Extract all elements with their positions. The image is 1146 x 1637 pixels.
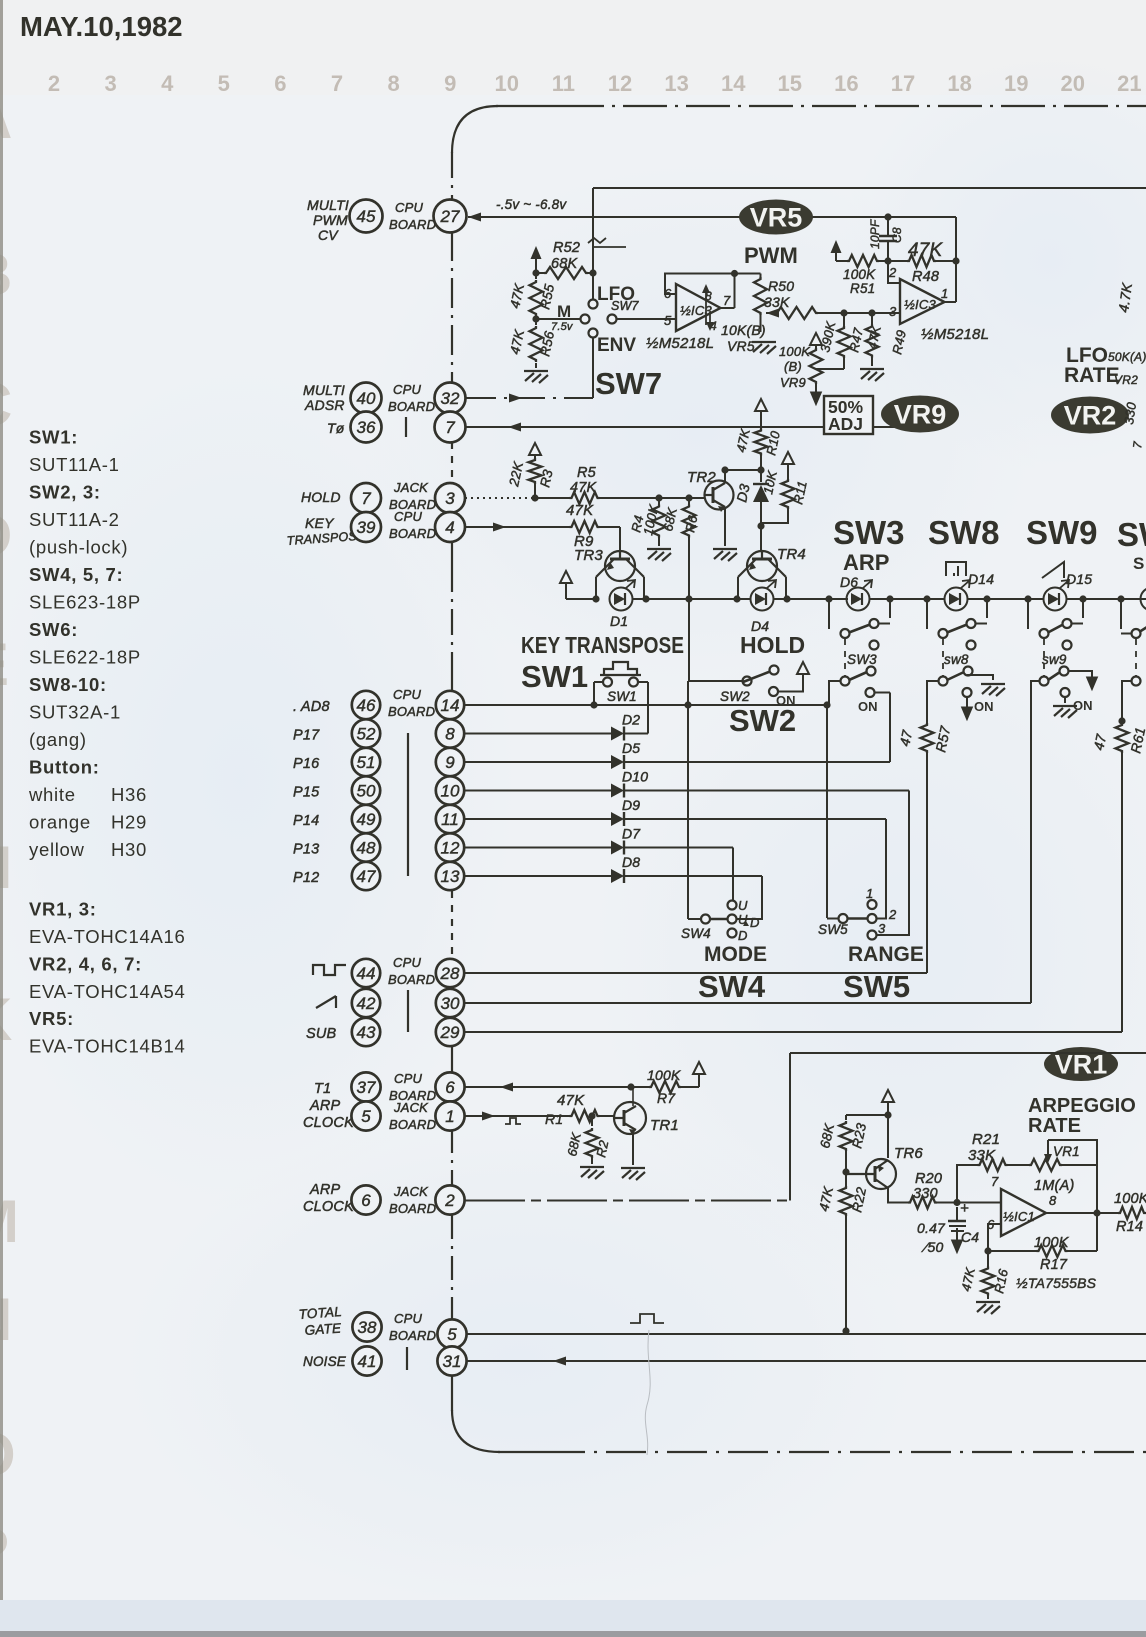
op-amp IC3a feedback loop wire xyxy=(665,274,761,295)
diode D8 xyxy=(611,869,624,883)
svg-text:SW4: SW4 xyxy=(681,926,711,941)
svg-text:SW3: SW3 xyxy=(847,652,877,667)
svg-text:Button:: Button: xyxy=(29,757,100,778)
diode D7 xyxy=(611,841,624,855)
svg-text:43: 43 xyxy=(357,1023,376,1042)
svg-text:RANGE: RANGE xyxy=(848,943,924,966)
svg-text:BOARD: BOARD xyxy=(388,399,435,414)
resistor R50 33K xyxy=(775,307,818,319)
connector pin 11 board xyxy=(436,805,464,833)
LED D6 xyxy=(847,580,873,611)
wire D5 to destination xyxy=(624,761,890,763)
svg-text:SUT11A-2: SUT11A-2 xyxy=(29,509,120,530)
wire R23 R22 chain xyxy=(845,1151,847,1186)
wire pin7 to 50% ADJ area xyxy=(466,426,902,428)
wire pin3 row xyxy=(465,497,533,499)
svg-text:7: 7 xyxy=(361,489,371,508)
svg-text:42: 42 xyxy=(357,994,376,1013)
svg-text:41: 41 xyxy=(358,1352,377,1371)
icon pulse total gate xyxy=(630,1314,664,1323)
potentiometer VR2 ellipse label xyxy=(1051,397,1129,434)
svg-text:3: 3 xyxy=(878,921,886,936)
connector pin 12 board xyxy=(436,833,464,861)
svg-text:TR6: TR6 xyxy=(894,1145,923,1162)
wire pin row y=790.5 xyxy=(464,790,611,792)
wire TR1 collector xyxy=(632,1087,634,1106)
resistor R23 68K xyxy=(845,1115,847,1120)
wire pin row y=762 xyxy=(464,761,611,763)
switch SW3 ON contact xyxy=(866,688,875,697)
svg-text:50: 50 xyxy=(357,782,376,801)
svg-text:5: 5 xyxy=(447,1325,457,1344)
svg-text:4: 4 xyxy=(161,71,174,96)
op-amp U=IC3a triangle xyxy=(676,284,721,331)
resistor R5 47K xyxy=(570,492,600,504)
svg-text:100K: 100K xyxy=(1114,1191,1146,1207)
wire output pin1 xyxy=(945,301,957,303)
svg-text:MODE: MODE xyxy=(704,943,767,966)
resistor R56 47K xyxy=(530,326,543,362)
waveform squiggle annotation xyxy=(588,238,606,243)
svg-text:TR3: TR3 xyxy=(574,547,603,564)
svg-text:21: 21 xyxy=(1117,71,1141,96)
svg-text:0.47: 0.47 xyxy=(917,1220,946,1236)
svg-text:D7: D7 xyxy=(622,826,641,842)
svg-text:7.5v: 7.5v xyxy=(551,321,574,333)
ground below R56 xyxy=(524,371,548,383)
svg-text:orangeH29: orangeH29 xyxy=(29,812,147,833)
node pin2 junction xyxy=(884,257,891,264)
op-amp U=IC1 triangle xyxy=(1001,1189,1046,1236)
svg-text:BOARD: BOARD xyxy=(389,217,436,232)
wire pin5 M to op-amp xyxy=(616,318,676,320)
wire R21 feedback rise xyxy=(957,1165,978,1203)
LED D1 xyxy=(610,580,636,611)
scan crease artifact xyxy=(645,1330,650,1455)
svg-text:KEY: KEY xyxy=(305,515,335,531)
resistor R61 47 xyxy=(1116,723,1129,753)
resistor R7 100K xyxy=(631,1086,649,1088)
svg-text:11: 11 xyxy=(552,71,575,96)
svg-text:SW2: SW2 xyxy=(729,703,796,738)
wire SW9 link corner xyxy=(1043,681,1045,685)
svg-text:SUT11A-1: SUT11A-1 xyxy=(29,454,120,475)
resistor R4 100K xyxy=(658,498,660,505)
svg-text:9: 9 xyxy=(445,753,455,772)
svg-text:CPU: CPU xyxy=(394,509,422,524)
wire SW8 bottom pole to R57 xyxy=(927,681,938,700)
switch SW8 ON contact and ground xyxy=(963,688,972,697)
switch SW2 xyxy=(743,677,752,686)
connector pin 28 board xyxy=(436,959,464,987)
node TR2 collector junction xyxy=(721,466,728,473)
wire D8 to MODE UD xyxy=(736,876,762,919)
svg-text:½IC3: ½IC3 xyxy=(680,303,712,318)
wire pin5 total gate row xyxy=(466,1333,1146,1335)
svg-text:52: 52 xyxy=(357,725,376,744)
svg-text:BOARD: BOARD xyxy=(389,1328,436,1343)
wire pin28 row to R57 xyxy=(464,972,927,974)
node junctions R4 R6 xyxy=(655,494,662,501)
svg-text:TR4: TR4 xyxy=(777,546,806,563)
wire TR2 collector xyxy=(724,470,726,483)
svg-text:T1: T1 xyxy=(314,1081,331,1097)
svg-text:47K: 47K xyxy=(570,480,598,496)
svg-text:27: 27 xyxy=(440,207,460,226)
svg-text:P14: P14 xyxy=(293,813,319,829)
svg-text:8: 8 xyxy=(1049,1193,1057,1208)
resistor R2 68K xyxy=(591,1116,593,1126)
left edge scan artifacts xyxy=(0,84,19,1583)
svg-text:330: 330 xyxy=(1121,401,1139,426)
wire rail y=1053 to page edge xyxy=(790,1052,1146,1054)
svg-text:330: 330 xyxy=(913,1186,938,1202)
svg-text:13: 13 xyxy=(441,867,460,886)
svg-text:ON: ON xyxy=(1073,698,1093,713)
board outline bottom-left corner xyxy=(452,1410,500,1452)
svg-text:. AD8: . AD8 xyxy=(293,699,330,715)
svg-text:19: 19 xyxy=(1004,71,1028,96)
switch SW4 MODE xyxy=(701,915,710,924)
ground below R16 xyxy=(976,1302,1000,1314)
paper tint patches xyxy=(0,0,1146,95)
svg-text:BOARD: BOARD xyxy=(389,1201,436,1216)
resistor R9 47K xyxy=(570,521,600,533)
wire pin1 row to R1 xyxy=(465,1115,570,1117)
svg-text:11: 11 xyxy=(441,810,459,829)
svg-text:48: 48 xyxy=(357,839,376,858)
svg-text:8: 8 xyxy=(387,71,399,96)
svg-text:6: 6 xyxy=(664,286,672,301)
connector pin 6 board xyxy=(435,1072,464,1101)
wire pin6 row to R7 xyxy=(465,1086,631,1088)
node R61 top junction xyxy=(1118,717,1125,724)
svg-text:13: 13 xyxy=(664,71,688,96)
svg-text:MULTI: MULTI xyxy=(307,197,349,213)
svg-text:D14: D14 xyxy=(968,571,994,587)
icon square wave SW8 xyxy=(946,562,966,576)
svg-text:SLE622-18P: SLE622-18P xyxy=(29,647,141,668)
diode D3 xyxy=(760,470,762,482)
label group tick 44-43 xyxy=(407,990,409,1032)
svg-text:49: 49 xyxy=(357,810,376,829)
svg-text:SW4, 5, 7:: SW4, 5, 7: xyxy=(29,564,123,585)
svg-text:RATE: RATE xyxy=(1028,1115,1081,1137)
svg-text:D15: D15 xyxy=(1066,571,1092,587)
connector pin 10 board xyxy=(436,776,464,804)
svg-text:GATE: GATE xyxy=(304,1320,342,1338)
svg-text:CPU: CPU xyxy=(395,200,423,215)
resistor R11 10K xyxy=(782,452,794,464)
capacitor C8 10PF xyxy=(884,213,891,220)
wire arp clock up to top rail xyxy=(789,1053,791,1201)
svg-text:R50: R50 xyxy=(768,278,794,294)
supply arrow after R7 xyxy=(693,1062,705,1074)
icon ramp SW9 xyxy=(1042,562,1064,578)
trimmer VR9 100K(B) xyxy=(810,333,822,345)
switch SW8 mechanical link xyxy=(942,639,944,676)
svg-text:VR2: VR2 xyxy=(1114,373,1138,387)
wire D9 to RANGE 2 xyxy=(876,819,886,919)
svg-text:PWM: PWM xyxy=(313,212,348,228)
wire pin6 input xyxy=(988,1224,1001,1251)
board edge line x=452 segments xyxy=(451,152,453,200)
svg-text:50K(A): 50K(A) xyxy=(1108,350,1146,364)
svg-text:SW2, 3:: SW2, 3: xyxy=(29,482,101,503)
svg-text:½M5218L: ½M5218L xyxy=(921,326,989,343)
svg-text:CPU: CPU xyxy=(393,687,421,702)
wire pin row y=819 xyxy=(464,818,611,820)
svg-text:45: 45 xyxy=(357,207,376,226)
svg-text:JACK: JACK xyxy=(393,480,429,495)
svg-text:ENV: ENV xyxy=(597,335,636,356)
potentiometer VR1 1M(A) xyxy=(1008,1164,1030,1166)
ground below R4 xyxy=(647,549,671,561)
diode D9 xyxy=(611,812,624,826)
svg-text:VR2, 4, 6, 7:: VR2, 4, 6, 7: xyxy=(29,953,142,974)
icon pulse small xyxy=(505,1118,521,1124)
svg-text:R48: R48 xyxy=(912,269,939,285)
switch SW8 bottom pole xyxy=(939,677,948,686)
diode D10 xyxy=(611,784,624,798)
svg-text:(B): (B) xyxy=(784,359,802,374)
resistor R1 47K xyxy=(570,1110,600,1122)
svg-text:7: 7 xyxy=(991,1174,999,1189)
svg-text:33K: 33K xyxy=(764,294,790,310)
wire pin30 row to SW9 chain xyxy=(464,1002,1031,1004)
svg-text:EVA-TOHC14B14: EVA-TOHC14B14 xyxy=(29,1036,185,1057)
svg-text:18: 18 xyxy=(947,71,971,96)
svg-text:10K(B): 10K(B) xyxy=(721,322,766,338)
svg-text:40: 40 xyxy=(357,389,376,408)
connector pin 3 jack board xyxy=(435,483,465,513)
wire VR9 wiper to R47 xyxy=(816,368,844,370)
svg-text:2: 2 xyxy=(888,907,897,922)
svg-text:M: M xyxy=(557,302,571,321)
wire pin7 input xyxy=(957,1202,1001,1204)
svg-text:ARP: ARP xyxy=(309,1182,341,1198)
wire SW3 ON to D5 row xyxy=(889,693,891,763)
node D3 R11 junction xyxy=(757,522,764,529)
svg-text:SW4: SW4 xyxy=(698,969,766,1004)
svg-text:15: 15 xyxy=(778,71,802,96)
svg-text:SLE623-18P: SLE623-18P xyxy=(29,592,141,613)
svg-text:10PF: 10PF xyxy=(868,219,882,249)
wire D10 to destination xyxy=(624,790,909,792)
wire pin32 to SW7 ENV xyxy=(466,397,593,399)
wire ENV down to pin 32 row xyxy=(592,337,594,398)
svg-text:U: U xyxy=(738,898,748,913)
svg-text:10: 10 xyxy=(441,782,460,801)
svg-text:SW6:: SW6: xyxy=(29,619,78,640)
svg-text:SW7: SW7 xyxy=(595,366,662,401)
svg-text:D: D xyxy=(750,915,760,930)
svg-text:(push-lock): (push-lock) xyxy=(29,537,128,558)
ground below VR5 xyxy=(752,342,776,354)
svg-text:4: 4 xyxy=(445,518,454,537)
label group tick xyxy=(405,417,407,437)
svg-text:8: 8 xyxy=(445,725,455,744)
svg-text:VR5: VR5 xyxy=(750,202,803,232)
svg-text:sw8: sw8 xyxy=(944,652,969,667)
svg-text:SW1:: SW1: xyxy=(29,427,78,448)
switch SW9 mechanical link xyxy=(1043,639,1045,676)
connector pin 9 board xyxy=(436,748,464,776)
wire R9 to TR3 base xyxy=(570,526,620,528)
svg-text:D8: D8 xyxy=(622,854,640,870)
svg-text:HOLD: HOLD xyxy=(740,632,805,658)
svg-text:12: 12 xyxy=(608,71,632,96)
svg-text:R7: R7 xyxy=(657,1090,676,1106)
svg-text:47K: 47K xyxy=(557,1092,585,1109)
svg-text:6: 6 xyxy=(445,1078,455,1097)
svg-text:20: 20 xyxy=(1061,71,1085,96)
svg-text:(gang): (gang) xyxy=(29,729,87,750)
svg-text:32: 32 xyxy=(441,389,460,408)
svg-text:31: 31 xyxy=(443,1352,462,1371)
supply arrow above R55 xyxy=(531,246,542,259)
ground below R49 xyxy=(860,369,884,381)
svg-text:KEY TRANSPOSE: KEY TRANSPOSE xyxy=(521,632,684,658)
svg-text:SW9: SW9 xyxy=(1026,514,1098,551)
board outline top-left corner xyxy=(452,106,498,153)
wire D8 to destination xyxy=(624,875,762,877)
switch SW9 top pole xyxy=(1027,599,1029,629)
svg-text:1: 1 xyxy=(941,286,948,301)
svg-text:½TA7555BS: ½TA7555BS xyxy=(1016,1275,1097,1291)
svg-text:47K: 47K xyxy=(908,240,944,261)
resistor R16 47K xyxy=(987,1251,989,1267)
svg-text:39: 39 xyxy=(357,518,376,537)
wire D5 row vertical crossing xyxy=(826,705,828,918)
switch SW5 RANGE xyxy=(839,914,848,923)
switch SW2 ON contact xyxy=(769,687,778,696)
svg-text:7: 7 xyxy=(331,71,343,96)
switch SW9 floating contact xyxy=(1063,641,1072,650)
svg-text:MAY.10,1982: MAY.10,1982 xyxy=(20,11,183,42)
svg-text:PWM: PWM xyxy=(744,243,798,268)
svg-text:VR5:: VR5: xyxy=(29,1008,74,1029)
svg-text:3: 3 xyxy=(445,489,455,508)
svg-text:SW5: SW5 xyxy=(818,922,848,937)
svg-text:CPU: CPU xyxy=(394,1311,422,1326)
resistor R55 47K xyxy=(530,280,543,316)
wire pin row y=876 xyxy=(464,875,611,877)
connector pin 44 pulse icon xyxy=(313,965,346,975)
switch SW8 top pole xyxy=(926,599,928,629)
wire D10 to RANGE 3 xyxy=(876,791,909,936)
svg-text:D10: D10 xyxy=(622,769,648,785)
resistor R20 330 xyxy=(908,1197,937,1209)
svg-text:14: 14 xyxy=(441,696,460,715)
wire TR1 emitter to ground xyxy=(632,1130,634,1165)
svg-text:SW8: SW8 xyxy=(928,514,1000,551)
svg-text:6: 6 xyxy=(361,1191,371,1210)
switch SW10 partial at page edge xyxy=(1120,599,1122,629)
resistor R51 100K xyxy=(847,255,879,267)
svg-text:½IC3: ½IC3 xyxy=(904,297,936,312)
svg-text:1M(A): 1M(A) xyxy=(1034,1178,1074,1194)
resistor R57 47 xyxy=(921,723,934,753)
wire TR3 legs xyxy=(595,577,597,599)
svg-text:ON: ON xyxy=(858,699,878,714)
svg-text:R20: R20 xyxy=(915,1171,942,1187)
resistor R17 100K xyxy=(988,1250,1037,1252)
svg-text:1: 1 xyxy=(445,1107,454,1126)
svg-text:10: 10 xyxy=(495,71,519,96)
svg-text:5: 5 xyxy=(218,71,230,96)
wire R61 to pin 29 row xyxy=(1121,753,1123,1032)
svg-text:33K: 33K xyxy=(968,1147,996,1164)
svg-text:CLOCK: CLOCK xyxy=(303,1199,355,1215)
svg-text:100K: 100K xyxy=(843,267,876,282)
svg-text:MULTI: MULTI xyxy=(303,382,345,398)
svg-text:3: 3 xyxy=(889,304,897,319)
wire pin4 row xyxy=(465,526,570,528)
svg-text:SUB: SUB xyxy=(306,1026,337,1042)
svg-text:28: 28 xyxy=(440,964,460,983)
board outline top edge xyxy=(496,105,560,107)
diode D2 xyxy=(611,727,624,741)
svg-text:5: 5 xyxy=(361,1107,371,1126)
connector pin 5 board total gate xyxy=(437,1319,466,1348)
svg-text:P17: P17 xyxy=(293,728,320,744)
svg-text:ARP: ARP xyxy=(843,550,889,575)
svg-text:½M5218L: ½M5218L xyxy=(646,335,714,352)
svg-text:VR1, 3:: VR1, 3: xyxy=(29,899,97,920)
svg-text:37: 37 xyxy=(357,1078,376,1097)
svg-text:NOISE: NOISE xyxy=(303,1354,347,1369)
label group tick bottom xyxy=(406,1347,408,1370)
svg-text:D5: D5 xyxy=(622,740,640,756)
LED D15 xyxy=(1044,580,1070,611)
svg-text:6: 6 xyxy=(274,71,286,96)
svg-text:R21: R21 xyxy=(972,1131,1000,1148)
potentiometer VR5 10K(B) xyxy=(760,274,762,278)
svg-text:36: 36 xyxy=(357,418,376,437)
svg-text:R1: R1 xyxy=(545,1111,563,1127)
node TR1 collector junction xyxy=(627,1083,634,1090)
supply arrow TR6 collector xyxy=(882,1090,894,1102)
potentiometer VR5 ellipse label xyxy=(739,200,813,235)
svg-text:44: 44 xyxy=(357,964,376,983)
svg-text:SW2: SW2 xyxy=(720,689,750,704)
switch SW9 ON contact and ground xyxy=(1061,688,1070,697)
node wire corner to R48 feedback xyxy=(955,217,957,261)
resistor R47 390K xyxy=(838,326,851,358)
svg-text:⁄50: ⁄50 xyxy=(921,1239,944,1255)
svg-text:S: S xyxy=(1133,554,1144,573)
svg-text:SW7: SW7 xyxy=(611,299,640,313)
resistor R10 47K xyxy=(755,399,767,411)
svg-text:CPU: CPU xyxy=(394,1071,422,1086)
transistor TR1 xyxy=(614,1102,646,1135)
switch SW7 contacts LFO/M/ENV xyxy=(581,315,590,324)
node M junction x=536 xyxy=(532,269,539,276)
svg-text:29: 29 xyxy=(440,1023,460,1042)
resistor R48 47K xyxy=(907,255,936,267)
wire -0.5V to -6.8V into pin 27 xyxy=(468,213,481,222)
svg-text:TR1: TR1 xyxy=(650,1117,679,1134)
svg-text:BOARD: BOARD xyxy=(389,526,436,541)
connector pin 30 board xyxy=(436,989,464,1017)
wire pin row y=847.5 xyxy=(464,847,611,849)
switch SW3 bottom pole xyxy=(841,677,850,686)
wire pin29 row to R61 chain xyxy=(464,1031,1122,1033)
svg-text:VR5: VR5 xyxy=(727,338,755,354)
svg-text:VR1: VR1 xyxy=(1053,1144,1080,1159)
board outline bottom edge xyxy=(498,1451,545,1453)
